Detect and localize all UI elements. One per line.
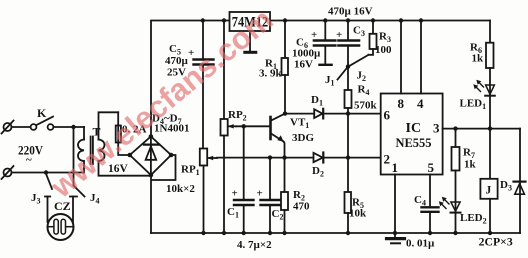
node R7 branch — [453, 126, 457, 130]
node rail junction R3 — [371, 18, 375, 22]
svg-text:RP2: RP2 — [228, 109, 247, 123]
capacitor C5 — [165, 21, 214, 149]
node rail RP2 — [222, 231, 226, 235]
svg-text:K: K — [37, 106, 47, 120]
wire D2 to pin2 — [325, 157, 381, 159]
wire to switch K — [12, 126, 31, 128]
wire bottom ground rail — [151, 232, 520, 234]
diode D3 — [500, 129, 526, 233]
ground (main) — [387, 233, 405, 243]
diode D2 — [312, 153, 324, 179]
wire K to transformer — [53, 126, 84, 128]
svg-text:+: + — [311, 29, 317, 41]
switch K — [31, 106, 54, 130]
svg-text:2CP×3: 2CP×3 — [479, 237, 513, 249]
svg-text:D2: D2 — [312, 165, 324, 179]
svg-text:0. 01µ: 0. 01µ — [406, 238, 435, 250]
node rail C2 — [268, 231, 272, 235]
node rail pin1 — [393, 231, 397, 235]
svg-text:J4: J4 — [90, 192, 100, 206]
svg-text:R3: R3 — [379, 31, 391, 45]
resistor R1 — [259, 21, 288, 114]
node rail junction pin4 — [419, 18, 423, 22]
wire pin 1 to rail — [394, 175, 396, 234]
svg-text:6: 6 — [384, 108, 391, 123]
svg-text:VT1: VT1 — [290, 117, 309, 131]
capacitor C3 — [336, 21, 365, 67]
svg-text:1k: 1k — [472, 53, 485, 65]
node rail junction pin8 — [399, 18, 403, 22]
svg-text:10k: 10k — [349, 208, 367, 220]
svg-text:RP1: RP1 — [181, 164, 200, 178]
relay contact J2 — [351, 55, 369, 83]
svg-text:+: + — [257, 188, 263, 200]
capacitor C4 — [414, 175, 439, 234]
node J3 branch — [44, 170, 48, 174]
resistor R7 — [452, 129, 477, 202]
wire pin 3 row — [443, 128, 520, 130]
wire pin 8 — [400, 21, 402, 94]
resistor R2 — [281, 189, 310, 233]
capacitor C1 — [227, 126, 254, 233]
capacitor C2 — [257, 158, 284, 233]
svg-text:~: ~ — [26, 154, 32, 166]
wire pin6 row — [285, 113, 314, 115]
node J4 branch — [71, 125, 75, 129]
resistor R3 — [369, 21, 393, 57]
relay contact J3 — [31, 175, 52, 223]
resistor R5 — [345, 158, 368, 233]
node rail RP1 — [201, 231, 205, 235]
node rail junction RP2 — [222, 18, 226, 22]
svg-text:1: 1 — [392, 160, 399, 175]
transistor VT1 — [271, 114, 315, 192]
resistor R4 — [345, 67, 378, 158]
svg-text:+: + — [336, 29, 342, 41]
wire top rail right segment — [270, 20, 490, 22]
relay coil J — [480, 129, 497, 233]
svg-text:10k×2: 10k×2 — [166, 183, 195, 195]
node rail junction C6 — [323, 18, 327, 22]
svg-text:1k: 1k — [464, 159, 477, 171]
relay contact J1 — [325, 67, 348, 88]
transformer T — [78, 112, 151, 175]
node C2 junction — [268, 155, 272, 159]
svg-text:D3: D3 — [500, 179, 512, 193]
svg-text:3DG: 3DG — [292, 132, 314, 144]
node rail junction C3 — [346, 18, 350, 22]
node emitter junction — [282, 155, 286, 159]
diode D1 — [311, 94, 323, 118]
fuse 0.2A — [116, 112, 147, 155]
LED1 — [460, 68, 495, 129]
svg-text:J3: J3 — [31, 192, 41, 206]
svg-text:LED2: LED2 — [460, 212, 487, 226]
socket CZ — [48, 199, 74, 240]
potentiometer RP1 — [166, 149, 217, 234]
svg-text:IC: IC — [406, 121, 422, 136]
potentiometer RP2 — [221, 21, 247, 234]
svg-text:100: 100 — [375, 44, 392, 56]
IC U2 NE555 — [381, 94, 443, 176]
wire emitter row (RP1 wiper to pin2) — [217, 157, 314, 159]
svg-text:J2: J2 — [357, 70, 367, 84]
svg-text:470µ 16V: 470µ 16V — [328, 6, 373, 18]
node R4 bottom junction — [346, 111, 350, 115]
svg-text:R4: R4 — [358, 84, 370, 98]
node rail R5 — [346, 231, 350, 235]
node collector junction — [283, 111, 287, 115]
svg-text:4. 7µ×2: 4. 7µ×2 — [237, 239, 272, 251]
svg-text:J1: J1 — [325, 74, 335, 88]
node rail junction R1 — [283, 18, 287, 22]
node rail R2 — [282, 231, 286, 235]
svg-text:NE555: NE555 — [396, 135, 432, 150]
ground (74M12 gnd) — [245, 31, 256, 52]
node J coil branch — [488, 126, 492, 130]
svg-text:3: 3 — [433, 121, 440, 136]
svg-text:16V: 16V — [294, 59, 313, 71]
wire bridge right corner to RP1 — [152, 155, 176, 180]
svg-text:C4: C4 — [414, 194, 426, 208]
node R5 junction on pin2 wire — [346, 155, 350, 159]
svg-text:2: 2 — [384, 152, 391, 167]
rectifier bridge D4-D7 — [108, 113, 189, 178]
node rail LED2 — [453, 231, 457, 235]
svg-text:+: + — [232, 188, 238, 200]
node rail J coil — [488, 231, 492, 235]
svg-text:D1: D1 — [311, 94, 323, 108]
ground (C6) — [320, 64, 332, 66]
svg-text:5: 5 — [428, 160, 435, 175]
svg-text:4: 4 — [417, 96, 424, 111]
wire bridge bottom to ground rail — [150, 175, 152, 233]
wire top rail left segment — [151, 21, 230, 137]
node base/C1 junction — [242, 124, 246, 128]
wire bottom 220V line — [12, 172, 85, 174]
node J1 J2 junction — [346, 64, 350, 68]
LED2 — [439, 197, 487, 233]
wire base wire RP2 wiper to VT1 — [236, 125, 270, 127]
svg-text:J: J — [486, 185, 492, 197]
svg-text:3. 9k: 3. 9k — [259, 68, 283, 80]
capacitor C6 — [292, 21, 335, 71]
terminal input bottom — [2, 166, 14, 179]
svg-text:C3: C3 — [353, 25, 365, 39]
relay contact J4 — [70, 127, 100, 223]
svg-text:570k: 570k — [354, 100, 378, 112]
svg-text:LED1: LED1 — [460, 98, 487, 112]
terminal input top — [2, 121, 14, 134]
svg-text:C1: C1 — [227, 206, 239, 220]
svg-text:8: 8 — [398, 96, 405, 111]
svg-text:470: 470 — [293, 201, 310, 213]
node rail junction C5 — [201, 18, 205, 22]
wire pin 4 — [420, 21, 422, 94]
regulator U1 74M12 — [230, 12, 271, 31]
node rail C4 — [428, 231, 432, 235]
resistor R6 — [470, 21, 494, 69]
node rail C1 — [242, 231, 246, 235]
